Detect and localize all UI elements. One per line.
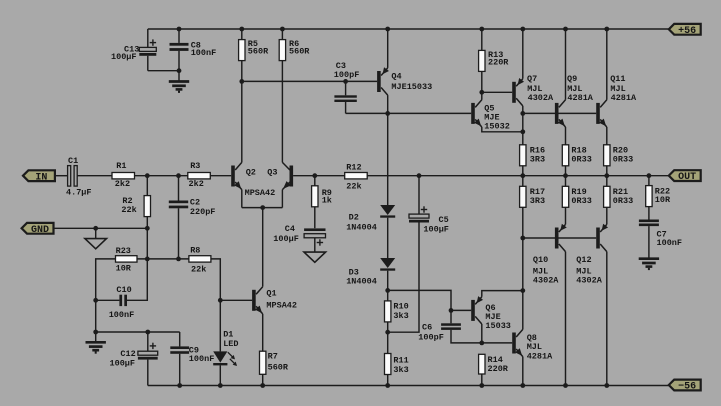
svg-text:10R: 10R — [655, 195, 671, 205]
svg-text:10R: 10R — [116, 264, 132, 274]
svg-text:220pF: 220pF — [190, 207, 216, 217]
svg-text:C1: C1 — [68, 156, 78, 166]
svg-text:IN: IN — [35, 172, 47, 183]
svg-text:22k: 22k — [346, 181, 361, 191]
svg-text:22k: 22k — [191, 264, 206, 274]
svg-text:560R: 560R — [289, 47, 310, 57]
svg-text:4.7µF: 4.7µF — [66, 187, 92, 197]
svg-text:MPSA42: MPSA42 — [266, 301, 297, 311]
svg-text:100µF: 100µF — [423, 225, 449, 235]
svg-text:Q9: Q9 — [567, 74, 577, 84]
svg-text:100µF: 100µF — [111, 52, 137, 62]
svg-text:220R: 220R — [488, 58, 509, 68]
svg-text:R12: R12 — [346, 163, 361, 173]
svg-text:Q2: Q2 — [246, 167, 256, 177]
svg-text:R8: R8 — [190, 246, 200, 256]
svg-text:D2: D2 — [349, 213, 359, 223]
svg-text:−56: −56 — [678, 382, 696, 393]
svg-text:1N4004: 1N4004 — [346, 222, 377, 232]
svg-text:D1: D1 — [223, 329, 233, 339]
svg-text:100nF: 100nF — [191, 48, 217, 58]
svg-text:100nF: 100nF — [657, 238, 683, 248]
svg-text:+56: +56 — [678, 26, 696, 37]
svg-text:C10: C10 — [116, 285, 131, 295]
svg-text:3k3: 3k3 — [393, 365, 408, 375]
svg-text:4281A: 4281A — [527, 351, 553, 361]
svg-text:220R: 220R — [488, 364, 509, 374]
svg-text:3R3: 3R3 — [530, 155, 545, 165]
svg-text:100nF: 100nF — [109, 310, 135, 320]
svg-text:100µF: 100µF — [273, 234, 299, 244]
svg-text:15033: 15033 — [485, 321, 511, 331]
svg-text:560R: 560R — [248, 47, 269, 57]
svg-text:3k3: 3k3 — [393, 311, 408, 321]
svg-text:R3: R3 — [190, 161, 200, 171]
svg-text:4281A: 4281A — [611, 93, 637, 103]
svg-text:Q11: Q11 — [610, 74, 625, 84]
svg-text:Q10: Q10 — [533, 255, 548, 265]
svg-text:100µF: 100µF — [110, 358, 136, 368]
svg-text:100pF: 100pF — [334, 70, 360, 80]
svg-text:LED: LED — [223, 339, 238, 349]
svg-text:1k: 1k — [322, 196, 332, 206]
svg-text:C5: C5 — [439, 215, 449, 225]
svg-text:3R3: 3R3 — [530, 196, 545, 206]
svg-text:R23: R23 — [116, 246, 131, 256]
svg-text:R1: R1 — [116, 161, 126, 171]
svg-text:Q4: Q4 — [391, 72, 401, 82]
svg-text:GND: GND — [31, 225, 49, 236]
svg-text:4302A: 4302A — [528, 93, 554, 103]
svg-text:15032: 15032 — [484, 122, 510, 132]
svg-text:C6: C6 — [422, 322, 432, 332]
svg-text:100nF: 100nF — [189, 354, 215, 364]
svg-text:100pF: 100pF — [418, 333, 444, 343]
svg-text:22k: 22k — [121, 205, 136, 215]
svg-text:MPSA42: MPSA42 — [245, 188, 276, 198]
svg-text:Q1: Q1 — [266, 288, 276, 298]
svg-text:C4: C4 — [285, 224, 295, 234]
svg-text:Q12: Q12 — [576, 255, 591, 265]
svg-text:2k2: 2k2 — [189, 179, 204, 189]
svg-text:0R33: 0R33 — [613, 196, 633, 206]
svg-text:Q3: Q3 — [267, 167, 277, 177]
svg-text:4302A: 4302A — [533, 276, 559, 286]
svg-text:4281A: 4281A — [567, 93, 593, 103]
svg-text:Q7: Q7 — [527, 74, 537, 84]
svg-text:2k2: 2k2 — [115, 179, 130, 189]
svg-text:0R33: 0R33 — [571, 196, 591, 206]
svg-text:4302A: 4302A — [576, 276, 602, 286]
svg-text:0R33: 0R33 — [613, 155, 633, 165]
svg-text:R7: R7 — [268, 351, 278, 361]
svg-text:MJE15033: MJE15033 — [391, 82, 432, 92]
svg-text:1N4004: 1N4004 — [346, 277, 377, 287]
svg-text:OUT: OUT — [678, 172, 696, 183]
svg-text:0R33: 0R33 — [571, 155, 591, 165]
svg-text:560R: 560R — [268, 363, 289, 373]
